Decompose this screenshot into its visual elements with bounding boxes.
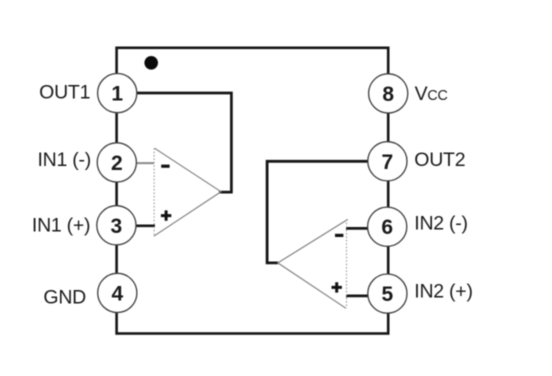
pin 4 circle	[98, 273, 137, 312]
wire pin5 to op-amp B non-inverting input	[346, 295, 368, 298]
wire op-amp B output to pin7	[267, 161, 368, 263]
IC body U1 package outline	[117, 48, 389, 334]
op-amp U1B non-inverting (+) marker	[332, 282, 342, 292]
pin 7 circle	[368, 142, 407, 181]
pin 1 indicator dot	[144, 56, 158, 70]
label IN1 (+) (pin 3)	[32, 214, 90, 236]
svg-text:3: 3	[111, 215, 123, 238]
pin 1 circle	[98, 74, 137, 113]
svg-text:1: 1	[111, 83, 123, 106]
label GND (pin 4)	[43, 287, 86, 309]
wire pin2 to op-amp A inverting input	[137, 162, 154, 164]
label OUT2 (pin 7)	[414, 149, 465, 171]
svg-text:GND: GND	[43, 287, 86, 309]
label IN1 (-) (pin 2)	[38, 149, 92, 171]
svg-text:6: 6	[381, 216, 393, 239]
pin 3 circle	[97, 206, 136, 245]
op-amp U1A non-inverting (+) marker	[161, 210, 171, 220]
svg-text:OUT1: OUT1	[39, 82, 90, 104]
svg-text:IN1 (-): IN1 (-)	[38, 149, 92, 171]
pin 6 circle	[368, 207, 407, 246]
svg-text:4: 4	[111, 282, 123, 305]
svg-text:IN2 (+): IN2 (+)	[414, 280, 472, 302]
op-amp U1B inverting (-) marker	[335, 234, 343, 237]
label IN2 (-) (pin 6)	[414, 213, 468, 235]
wire pin3 to op-amp A non-inverting input	[136, 224, 155, 227]
svg-text:8: 8	[382, 83, 394, 106]
label VCC (pin 8)	[415, 83, 448, 105]
svg-text:VCC: VCC	[415, 83, 448, 105]
wire pin6 to op-amp B inverting input	[346, 227, 368, 230]
op-amp U1A inverting (-) marker	[161, 165, 169, 168]
pin 8 circle	[369, 74, 408, 113]
svg-text:IN1 (+): IN1 (+)	[32, 214, 90, 236]
pin 2 circle	[97, 143, 136, 182]
svg-text:OUT2: OUT2	[414, 149, 465, 171]
op-amp U1B triangle	[278, 219, 348, 308]
label OUT1 (pin 1)	[39, 82, 90, 104]
pin 5 circle	[368, 274, 407, 313]
op-amp U1A triangle	[154, 148, 221, 236]
svg-text:5: 5	[382, 283, 394, 306]
wire pin1 to op-amp A output	[137, 93, 233, 192]
svg-text:2: 2	[111, 152, 123, 175]
svg-text:7: 7	[382, 151, 394, 174]
label IN2 (+) (pin 5)	[414, 280, 472, 302]
svg-text:IN2 (-): IN2 (-)	[414, 213, 468, 235]
